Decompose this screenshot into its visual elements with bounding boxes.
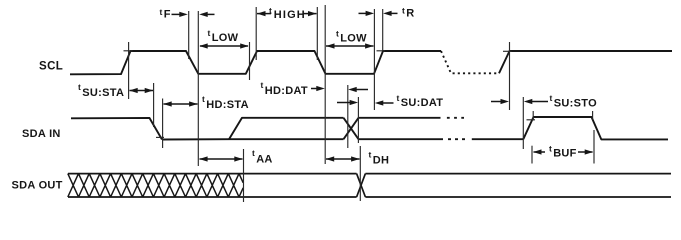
wire SCL dotted dont-care segment <box>441 51 499 73</box>
dimension arrow tHIGH right half <box>303 13 317 15</box>
guide line SCL fall 1 start / tF left <box>188 11 190 59</box>
guide line SCL rise 4 / tSU:STO left <box>509 42 511 110</box>
dimension arrow tHIGH left half <box>257 13 271 15</box>
svg-text:SDA IN: SDA IN <box>22 128 61 140</box>
svg-text:t: t <box>269 5 272 15</box>
svg-text:AA: AA <box>256 153 273 165</box>
tick mark SDA STOP rise high threshold <box>527 119 536 121</box>
wire SCL trace solid segment 1 <box>70 51 441 74</box>
dimension arrow tF (points right at fall start) <box>172 13 182 15</box>
wire SDA IN high segment with START fall <box>71 118 162 140</box>
dimension arrow tR (points left at rise top) <box>389 12 398 14</box>
dimension arrow tBUF left head <box>534 151 546 153</box>
svg-text:BUF: BUF <box>553 147 577 159</box>
dimension arrow tAA <box>200 158 243 160</box>
guide line SCL fall 1 end / tF right, tLOW left, tHD:STA right, tAA left <box>197 11 199 166</box>
svg-text:LOW: LOW <box>212 32 239 44</box>
svg-text:R: R <box>406 7 414 19</box>
dimension arrow tSU:DAT (points right at data stable) <box>337 102 352 104</box>
wire SDA IN data rise fork <box>229 118 344 139</box>
svg-text:t: t <box>160 7 163 17</box>
wire SDA IN band after crossover, low line solid then dashed <box>359 138 444 140</box>
wire SDA IN low line through data bit <box>162 138 344 140</box>
dimension arrow tLOW first <box>200 45 248 47</box>
tick mark SCL rise 1 top threshold <box>124 50 133 52</box>
wire SDA OUT undefined crosshatch region <box>68 174 243 197</box>
guide line SCL rise 2 top / tHIGH left <box>255 7 257 60</box>
svg-text:t: t <box>208 28 211 38</box>
wire SDA OUT band bottom line <box>68 196 671 198</box>
guide line SDA low reach / tHD:STA left <box>162 99 164 149</box>
guide line SDA OUT valid / tAA right bound <box>243 149 245 202</box>
guide line SDA STOP rise foot / tSU:STO right <box>522 97 524 149</box>
svg-text:t: t <box>202 94 205 104</box>
svg-text:LOW: LOW <box>340 33 367 45</box>
dimension arrow tHD:DAT (points left at data change) <box>353 89 368 91</box>
dimension arrow tSU:STO (points left at SDA rise) <box>530 101 549 103</box>
svg-text:t: t <box>369 150 372 160</box>
guide line SDA crossover end / tSU:DAT left <box>357 97 359 143</box>
wire SDA IN band after crossover, high line solid then dashed <box>359 117 441 119</box>
svg-text:t: t <box>78 82 81 92</box>
tick mark SDA fall low threshold <box>156 136 164 138</box>
wire SDA IN data crossover X <box>344 118 359 139</box>
tick mark SCL rise 4 top threshold <box>503 50 512 52</box>
dimension arrow tSU:STO (points right at SCL rise) <box>491 101 503 103</box>
guide line tBUF right bound / SDA STOP fall <box>593 130 595 164</box>
wire SCL trace solid segment 2 <box>499 51 672 73</box>
dimension arrow tR (points right at rise foot) <box>359 12 369 14</box>
svg-text:SU:STA: SU:STA <box>82 87 124 99</box>
svg-text:t: t <box>402 5 405 15</box>
svg-text:F: F <box>164 9 171 21</box>
svg-text:t: t <box>397 93 400 103</box>
svg-text:SDA OUT: SDA OUT <box>12 180 63 192</box>
guide line SCL rise 3 foot / tLOW2 right, tR left, tSU:DAT right <box>373 9 375 110</box>
dimension arrow tHD:STA <box>164 103 198 105</box>
svg-text:HD:STA: HD:STA <box>206 99 249 111</box>
guide line SCL rise 2 foot / tLOW right <box>249 42 251 80</box>
svg-text:DH: DH <box>373 155 390 167</box>
svg-text:t: t <box>550 93 553 103</box>
dimension arrow tSU:STA <box>130 90 154 92</box>
guide line SCL rise 1 / tSU:STA left <box>128 42 130 99</box>
wire SDA OUT band top line <box>68 173 671 175</box>
tick mark SDA STOP fall top corner <box>592 111 594 120</box>
svg-text:t: t <box>549 144 552 154</box>
guide line SCL fall 2 top / tHIGH right <box>316 7 318 60</box>
guide line SCL fall 2 end / tLOW2 left, tHD:DAT right, tDH left <box>324 5 326 164</box>
guide line SDA OUT crossover / tDH right <box>359 146 361 201</box>
dimension arrow tSU:DAT (points left at SCL rise) <box>380 102 394 104</box>
tick mark SDA STOP rise top corner <box>532 111 534 121</box>
svg-text:SCL: SCL <box>39 61 63 73</box>
guide line SCL rise 3 top / tR right <box>382 9 384 51</box>
guide line SDA crossover start / tHD:DAT bound <box>347 85 349 148</box>
dimension arrow tBUF right head <box>578 151 593 153</box>
guide line tBUF left bound <box>531 146 533 164</box>
dimension arrow tLOW second <box>326 45 374 47</box>
wire SDA IN low line before STOP <box>472 138 524 140</box>
wire SDA IN STOP pulse <box>523 117 668 139</box>
svg-text:SU:STO: SU:STO <box>554 97 597 109</box>
dimension arrow tHD:DAT (points right at SCL fall line) <box>311 88 319 90</box>
dimension arrow tDH <box>326 158 360 160</box>
svg-text:t: t <box>252 148 255 158</box>
svg-text:HIGH: HIGH <box>274 9 306 21</box>
tick mark SCL rise 3 top threshold <box>377 50 386 52</box>
guide line SDA fall mid / tSU:STA right <box>153 83 155 127</box>
wire SDA OUT crossover X at tDH <box>357 174 366 197</box>
dimension arrow inward-left after tF gap <box>205 13 215 15</box>
svg-text:t: t <box>336 29 339 39</box>
svg-text:SU:DAT: SU:DAT <box>401 97 444 109</box>
svg-text:t: t <box>261 80 264 90</box>
svg-text:HD:DAT: HD:DAT <box>265 85 308 97</box>
